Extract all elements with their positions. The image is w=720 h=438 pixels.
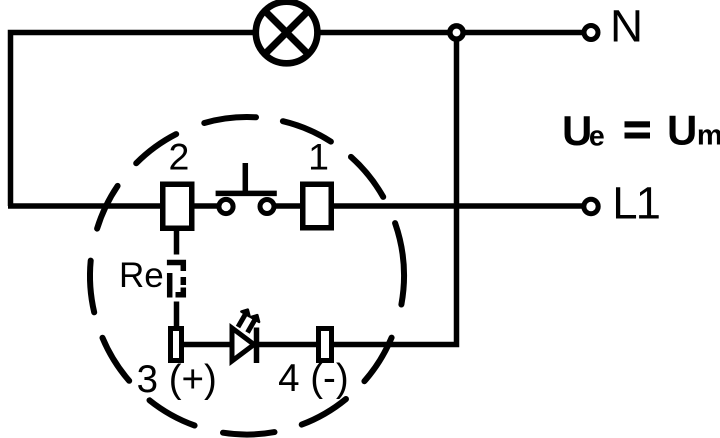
terminal block 1 bbox=[303, 184, 332, 228]
svg-text:2: 2 bbox=[169, 136, 190, 178]
push-button S1: right contact bbox=[260, 200, 274, 214]
svg-text:4 (-): 4 (-) bbox=[278, 357, 349, 400]
terminal N (open circle) bbox=[584, 26, 598, 40]
LED D1: triangle bbox=[232, 328, 254, 361]
svg-text:3 (+): 3 (+) bbox=[137, 358, 217, 401]
svg-text:U: U bbox=[562, 107, 592, 154]
relay Re (dashed box) bbox=[167, 263, 183, 298]
wire: top-left loop (left vertical + top horizontal to lamp) bbox=[11, 33, 254, 207]
svg-text:m: m bbox=[697, 120, 720, 152]
wire: L1 line right segment bbox=[267, 203, 583, 209]
push-button S1: actuator stem bbox=[243, 163, 249, 193]
svg-text:L1: L1 bbox=[612, 178, 659, 229]
terminal block 2 bbox=[163, 184, 192, 228]
wire: terminal 2 down to relay bbox=[174, 229, 180, 255]
push-button S1: left contact bbox=[219, 199, 233, 213]
wire: LED to terminal 4 bbox=[256, 342, 318, 348]
svg-text:N: N bbox=[610, 1, 643, 52]
wire: terminal 3 to LED bbox=[184, 342, 232, 348]
dashed enclosure circle (12 hand-placed dashes) bbox=[90, 117, 404, 435]
svg-text:U: U bbox=[667, 107, 697, 154]
svg-text:e: e bbox=[589, 121, 605, 153]
wire: right vertical from junction down and left to terminal 4 bbox=[334, 33, 457, 345]
wire: relay down to terminal 3 bbox=[174, 302, 180, 329]
wire: L1 line left segment bbox=[8, 203, 226, 209]
push-button S1: actuator bar bbox=[216, 191, 277, 197]
svg-text:1: 1 bbox=[308, 136, 329, 178]
equals sign (two bars) bbox=[625, 121, 651, 127]
lamp E1 (circle with X) bbox=[256, 2, 318, 64]
terminal L1 (open circle) bbox=[584, 199, 598, 213]
terminal block 4 bbox=[319, 329, 332, 361]
LED D1: emission arrow 1 bbox=[238, 310, 250, 327]
equation Ue = Um bbox=[562, 107, 720, 155]
terminal block 3 bbox=[171, 329, 182, 361]
wire: lamp right to N terminal bbox=[320, 30, 583, 36]
svg-text:Re: Re bbox=[119, 256, 164, 295]
LED D1: cathode bar bbox=[254, 328, 260, 364]
junction node (open circle) bbox=[450, 26, 463, 39]
LED D1: emission arrow 2 bbox=[248, 315, 260, 332]
